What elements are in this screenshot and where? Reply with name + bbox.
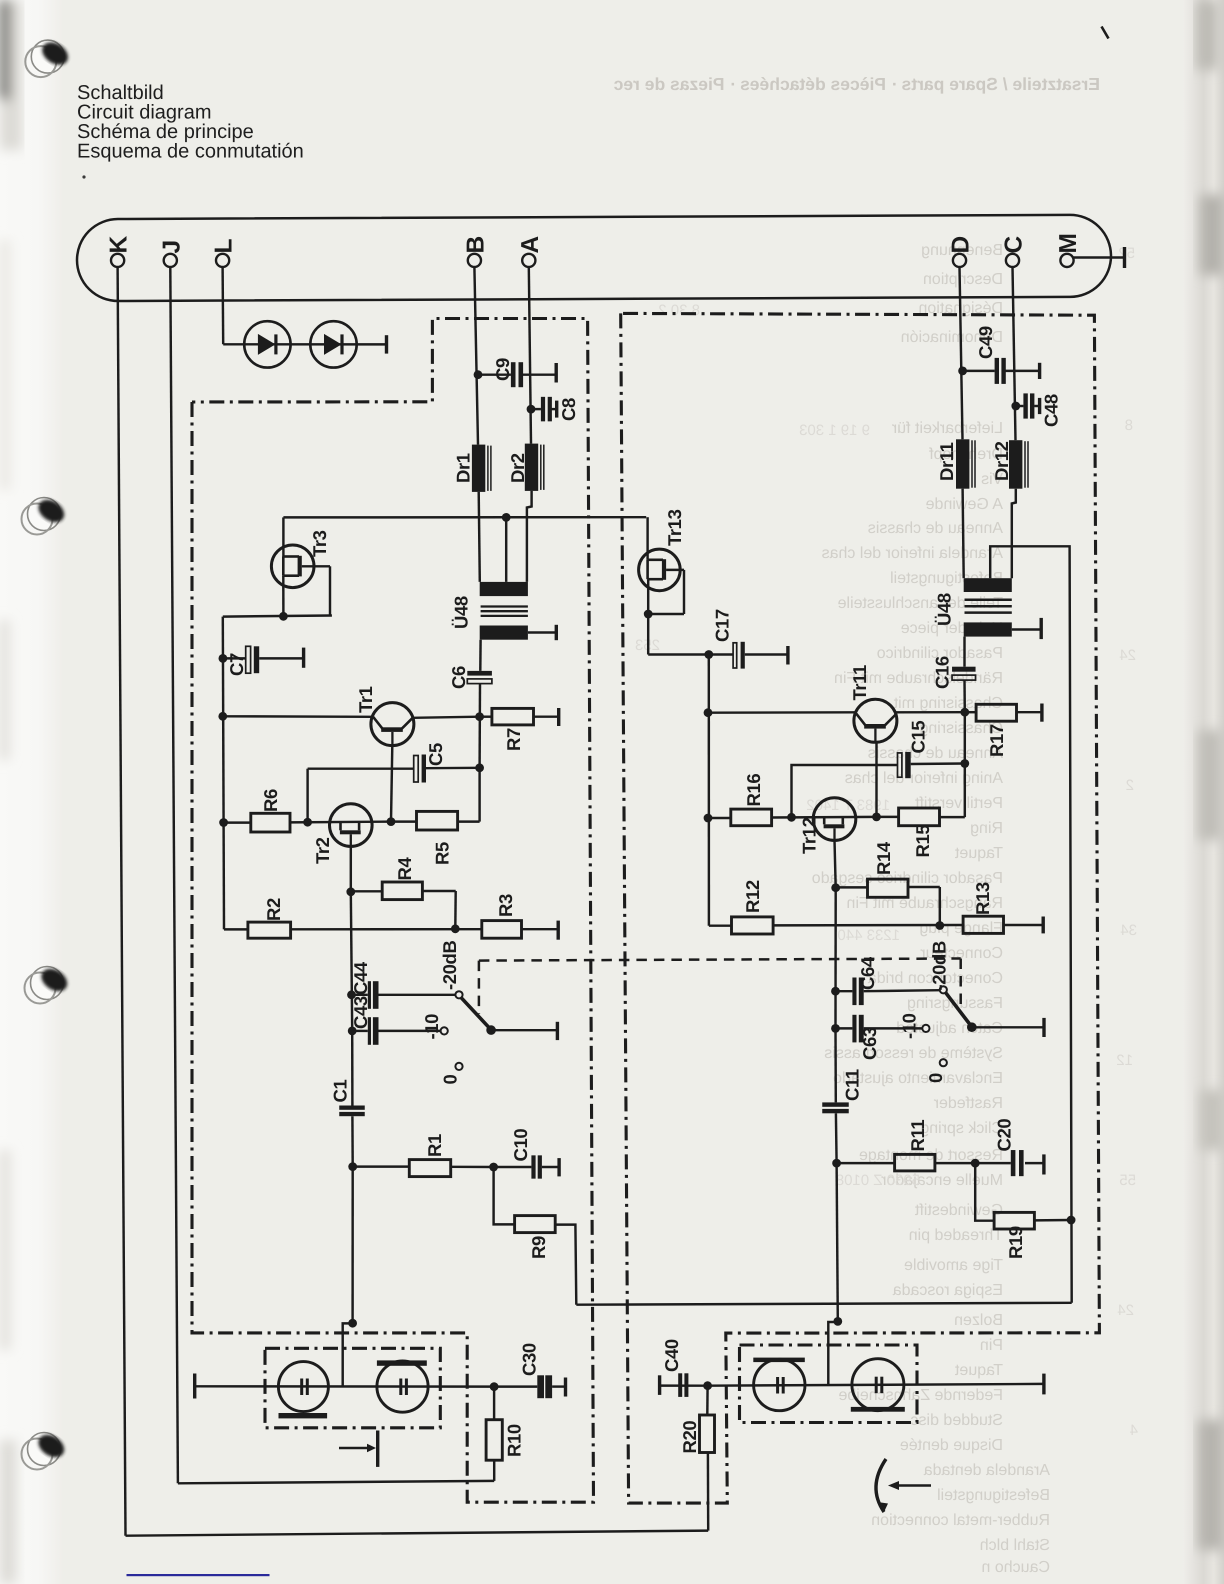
svg-text:Studded disc: Studded disc: [910, 1412, 1003, 1429]
svg-text:Taquet: Taquet: [954, 1362, 1003, 1379]
svg-text:24: 24: [1117, 1302, 1134, 1319]
svg-text:Disque dentée: Disque dentée: [900, 1437, 1003, 1454]
svg-text:Befestigungsteil: Befestigungsteil: [937, 1487, 1050, 1504]
svg-text:Description: Description: [923, 271, 1003, 288]
svg-text:Tige amovible: Tige amovible: [904, 1257, 1003, 1274]
svg-text:R7: R7: [503, 728, 524, 751]
svg-text:8 30 2: 8 30 2: [658, 302, 700, 319]
svg-text:9 19 1 303: 9 19 1 303: [799, 422, 870, 439]
svg-text:Tr12: Tr12: [799, 817, 820, 854]
svg-text:R17: R17: [986, 724, 1007, 757]
svg-text:C63: C63: [859, 1027, 880, 1060]
svg-text:Federnde Zahnscheibe: Federnde Zahnscheibe: [838, 1387, 1003, 1404]
svg-text:Anneau de chassis: Anneau de chassis: [868, 745, 1003, 762]
svg-text:Tr13: Tr13: [664, 509, 685, 546]
svg-text:Tr1: Tr1: [355, 686, 376, 713]
svg-text:J: J: [158, 240, 185, 254]
svg-text:R3: R3: [495, 894, 516, 917]
svg-text:0: 0: [925, 1073, 946, 1083]
svg-text:R19: R19: [1005, 1226, 1026, 1259]
svg-text:-10: -10: [899, 1013, 920, 1039]
svg-text:Système de ressort assis: Système de ressort assis: [824, 1045, 1003, 1062]
svg-text:Arandela dentada: Arandela dentada: [924, 1462, 1050, 1479]
svg-text:Ersatzteile / Spare parts · Pi: Ersatzteile / Spare parts · Pièces détac…: [613, 74, 1100, 94]
svg-text:Dr11: Dr11: [936, 442, 957, 481]
svg-text:R16: R16: [743, 774, 764, 807]
svg-text:C43: C43: [350, 996, 371, 1029]
svg-text:C1: C1: [330, 1080, 351, 1103]
svg-text:Aning inferior del chas: Aning inferior del chas: [845, 770, 1003, 787]
svg-text:-10: -10: [421, 1014, 442, 1040]
svg-text:C15: C15: [908, 721, 929, 754]
svg-text:R4: R4: [394, 857, 415, 881]
svg-text:Tr11: Tr11: [849, 665, 870, 701]
svg-text:Gewindestift: Gewindestift: [914, 1202, 1003, 1219]
svg-text:R2: R2: [263, 898, 284, 921]
svg-text:D: D: [948, 236, 975, 254]
svg-text:R11: R11: [907, 1120, 928, 1152]
svg-text:Click spring: Click spring: [920, 1120, 1003, 1137]
svg-text:Teile der anschlussteile: Teile der anschlussteile: [837, 595, 1003, 612]
svg-text:C48: C48: [1041, 394, 1062, 427]
svg-text:A: A: [517, 236, 544, 254]
svg-text:K: K: [106, 236, 133, 254]
svg-text:C40: C40: [661, 1339, 682, 1372]
svg-text:Tr3: Tr3: [309, 530, 330, 557]
svg-text:Anneau de chassis: Anneau de chassis: [868, 520, 1003, 537]
svg-text:Dr2: Dr2: [507, 453, 528, 483]
svg-text:C30: C30: [519, 1343, 540, 1376]
svg-text:R1: R1: [424, 1134, 445, 1157]
svg-text:C7: C7: [226, 653, 247, 676]
svg-text:-20dB: -20dB: [439, 941, 460, 990]
svg-text:C11: C11: [842, 1069, 863, 1101]
svg-text:C9: C9: [492, 358, 513, 381]
svg-text:C5: C5: [425, 743, 446, 766]
svg-text:Rastfeder: Rastfeder: [933, 1095, 1003, 1112]
svg-text:Tr2: Tr2: [312, 837, 333, 864]
svg-text:8: 8: [1125, 417, 1133, 434]
svg-text:R9: R9: [528, 1236, 549, 1259]
svg-text:L: L: [211, 239, 238, 254]
svg-text:R15: R15: [912, 825, 933, 858]
svg-text:R10: R10: [504, 1424, 525, 1457]
svg-text:C10: C10: [510, 1129, 531, 1162]
svg-text:Esquema de conmutatión: Esquema de conmutatión: [77, 141, 304, 163]
svg-text:R5: R5: [432, 842, 453, 865]
svg-text:C49: C49: [975, 326, 996, 359]
svg-text:R14: R14: [873, 841, 894, 875]
svg-text:Dr12: Dr12: [991, 441, 1012, 481]
svg-text:Stahl blch: Stahl blch: [980, 1537, 1050, 1554]
svg-text:M: M: [1055, 233, 1082, 253]
svg-text:C: C: [1001, 236, 1028, 254]
svg-text:C44: C44: [350, 961, 371, 995]
svg-text:2: 2: [1126, 777, 1134, 794]
svg-text:Bolzen: Bolzen: [954, 1312, 1003, 1329]
svg-text:C64: C64: [857, 956, 878, 990]
svg-text:Arandela inferior del chas: Arandela inferior del chas: [822, 545, 1003, 562]
svg-text:Dr1: Dr1: [453, 453, 474, 483]
svg-text:Ü48: Ü48: [934, 593, 955, 626]
svg-text:R12: R12: [742, 880, 763, 913]
svg-text:B: B: [462, 236, 489, 254]
svg-text:4: 4: [1130, 1422, 1138, 1439]
svg-text:Rubber-metal connection: Rubber-metal connection: [871, 1512, 1050, 1529]
svg-text:Caucho n: Caucho n: [982, 1559, 1051, 1576]
svg-text:Ü48: Ü48: [451, 596, 472, 629]
svg-text:Threaded pin: Threaded pin: [909, 1227, 1003, 1244]
svg-text:R6: R6: [260, 789, 281, 812]
svg-text:R20: R20: [679, 1421, 700, 1454]
svg-text:24: 24: [1119, 647, 1136, 664]
svg-text:0: 0: [440, 1075, 461, 1085]
svg-text:5930 Z 0108: 5930 Z 0108: [836, 1172, 920, 1189]
svg-text:C8: C8: [558, 398, 579, 421]
svg-text:R13: R13: [972, 882, 993, 915]
svg-text:55: 55: [1119, 1172, 1136, 1189]
svg-text:C20: C20: [994, 1119, 1015, 1152]
svg-text:C16: C16: [932, 656, 953, 689]
svg-text:1233 440: 1233 440: [837, 927, 900, 944]
svg-text:Taquet: Taquet: [954, 845, 1003, 862]
svg-text:12: 12: [1116, 1052, 1133, 1069]
svg-text:34: 34: [1120, 922, 1137, 939]
svg-text:Pertil verstift: Pertil verstift: [914, 795, 1003, 812]
svg-text:C17: C17: [712, 609, 733, 642]
svg-text:Lieferbarkeit für: Lieferbarkeit für: [891, 420, 1003, 437]
svg-text:C6: C6: [448, 666, 469, 689]
svg-text:Espiga roscada: Espiga roscada: [893, 1282, 1003, 1299]
svg-text:52: 52: [1118, 245, 1135, 262]
svg-text:A Gewinde: A Gewinde: [926, 496, 1003, 513]
svg-text:-20dB: -20dB: [929, 941, 950, 990]
svg-text:Pin: Pin: [980, 1337, 1003, 1354]
svg-text:Ring: Ring: [970, 820, 1003, 837]
